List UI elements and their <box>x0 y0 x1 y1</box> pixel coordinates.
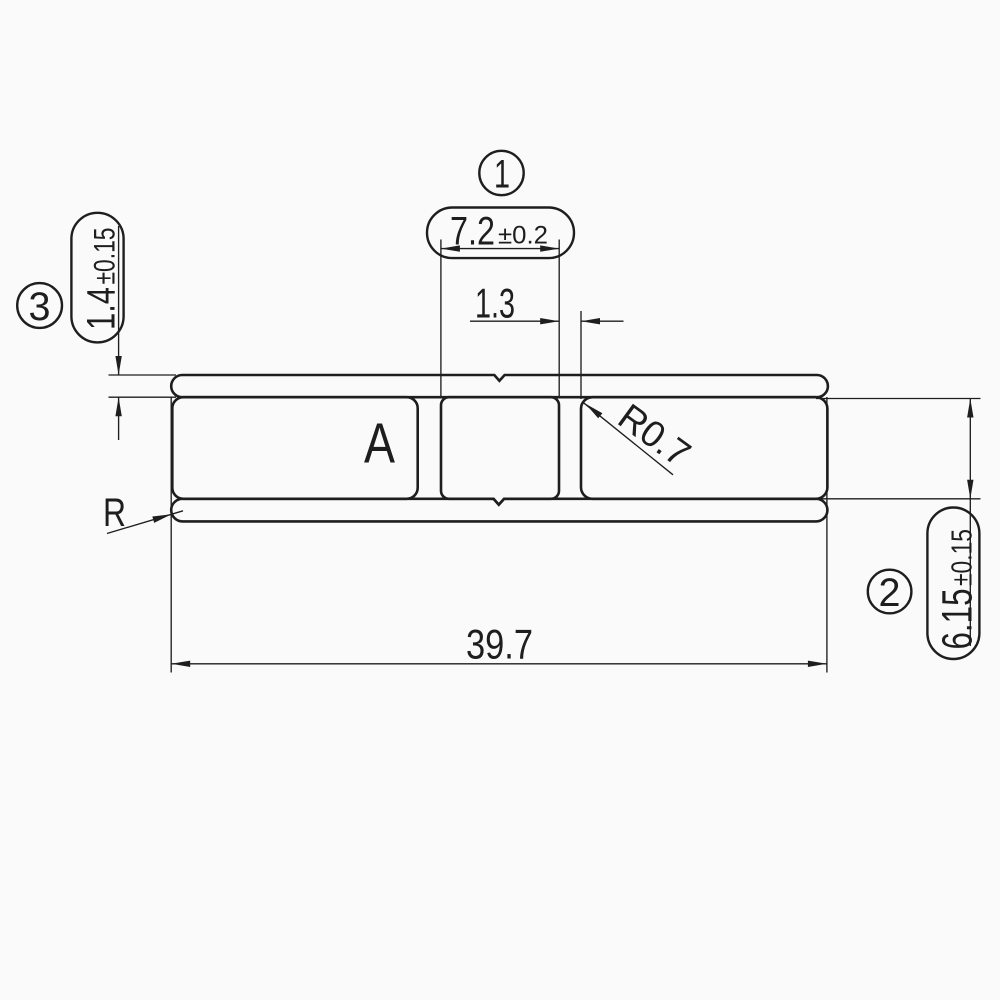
stadium frame around dim 6.15 <box>927 508 979 660</box>
extension line lower for dim 1.4 <box>109 396 177 398</box>
dimension line 1.4 lower part <box>118 397 120 440</box>
svg-text:R: R <box>103 491 126 535</box>
svg-text:1.3: 1.3 <box>475 280 515 327</box>
extension line right for dim 39.7 <box>826 397 828 673</box>
leader line R0.7 (inner corner radius callout) <box>583 402 673 475</box>
arrowhead dim 39.7 left <box>171 661 190 667</box>
balloon circle 1 <box>479 151 523 195</box>
svg-text:±0.15: ±0.15 <box>89 228 122 285</box>
extension line left of dim 7.2 <box>440 240 442 398</box>
arrowhead dim 6.15 bottom (pointing down) <box>967 480 973 499</box>
dimension line 1.4 upper part <box>118 226 120 375</box>
balloon circle 3 <box>17 283 62 328</box>
svg-text:6.15: 6.15 <box>934 589 982 650</box>
right cavity (rounded rectangle opening) <box>581 397 827 499</box>
bottom plate (profile outline, lower strip with V notch) <box>171 499 827 522</box>
svg-text:39.7: 39.7 <box>466 621 533 668</box>
arrowhead dim 7.2 left <box>441 245 460 251</box>
extension line right of dim 7.2 / left of dim 1.3 <box>558 240 560 398</box>
arrowhead leader R <box>152 514 171 523</box>
extension line lower for dim 6.15 <box>816 498 981 500</box>
arrowhead dim 6.15 top (pointing up) <box>967 399 973 418</box>
svg-text:1.4: 1.4 <box>80 287 124 330</box>
arrowhead dim 39.7 right <box>808 661 827 667</box>
arrowhead dim 1.3 right (pointing left) <box>581 318 600 324</box>
stadium frame around dim 7.2 <box>427 208 574 259</box>
svg-text:1: 1 <box>494 152 510 196</box>
svg-text:3: 3 <box>29 285 51 329</box>
extension line upper for dim 6.15 <box>816 398 981 400</box>
top plate (profile outline, upper strip with V notch) <box>171 375 828 397</box>
svg-text:±0.2: ±0.2 <box>498 222 548 250</box>
svg-text:7.2: 7.2 <box>450 210 495 254</box>
left cavity A (rounded rectangle opening) <box>172 397 417 499</box>
svg-text:±0.15: ±0.15 <box>947 529 979 586</box>
balloon circle 2 <box>868 570 912 614</box>
dimension line 39.7 <box>171 663 827 665</box>
svg-text:2: 2 <box>879 571 901 615</box>
extension line right of dim 1.3 <box>580 311 582 399</box>
extension line left for dim 39.7 <box>170 397 172 673</box>
dimension line 1.3 left segment <box>470 320 559 322</box>
arrowhead dim 1.4 bottom (pointing up) <box>115 397 121 416</box>
arrowhead dim 1.4 top (pointing down) <box>115 356 121 375</box>
arrowhead dim 7.2 right <box>540 245 559 251</box>
dimension line 1.3 right segment <box>581 320 624 322</box>
middle cavity (rounded rectangle opening with V notch bottom) <box>441 397 559 505</box>
leader line R (bottom left radius callout) <box>107 511 183 534</box>
extension line upper for dim 1.4 <box>109 374 177 376</box>
stadium frame around dim 1.4 <box>71 213 123 343</box>
dimension line 6.15 <box>969 399 971 647</box>
svg-text:A: A <box>364 411 395 475</box>
dimension line 7.2 <box>441 248 559 250</box>
arrowhead dim 1.3 left (pointing right) <box>540 318 559 324</box>
arrowhead leader R0.7 <box>586 404 603 419</box>
